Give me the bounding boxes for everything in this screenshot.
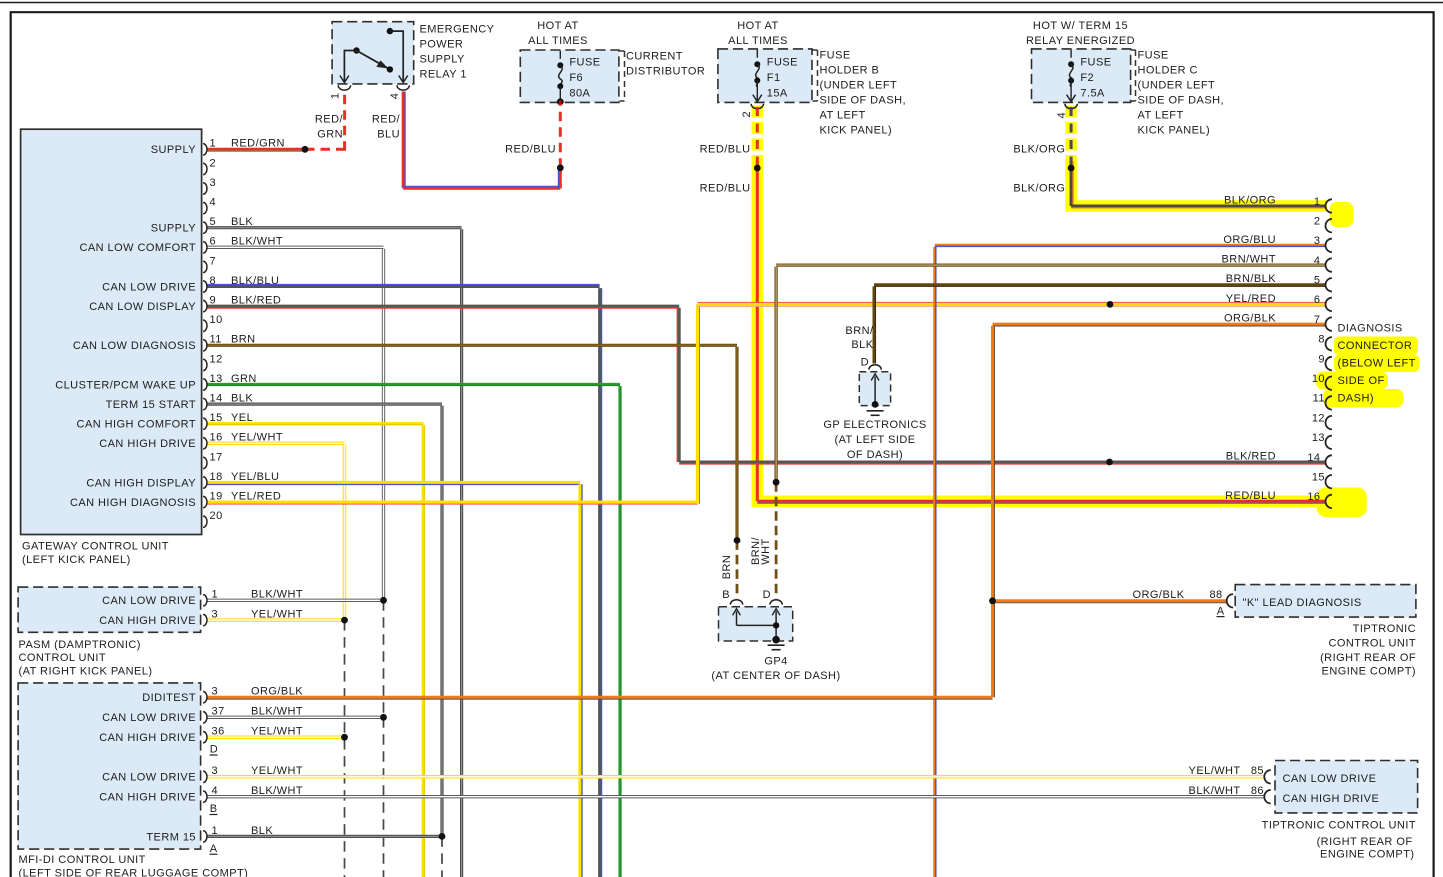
- svg-text:SUPPLY: SUPPLY: [420, 53, 466, 65]
- svg-text:MFI-DI CONTROL UNIT: MFI-DI CONTROL UNIT: [19, 854, 146, 866]
- svg-text:CAN LOW DRIVE: CAN LOW DRIVE: [102, 281, 196, 293]
- svg-text:BLK/ORG: BLK/ORG: [1013, 143, 1065, 155]
- svg-text:CAN LOW DRIVE: CAN LOW DRIVE: [102, 595, 196, 607]
- fuse F1 pin 2 terminal: [751, 104, 763, 109]
- diagnosis connector pin 4 terminal: [1326, 258, 1332, 271]
- svg-text:BRN/BLK: BRN/BLK: [1226, 273, 1276, 285]
- svg-text:9: 9: [1318, 353, 1325, 365]
- dashed bus continuation BLK/WHT: [383, 600, 385, 717]
- svg-text:4: 4: [1056, 112, 1068, 119]
- svg-text:F2: F2: [1080, 72, 1094, 84]
- svg-text:(RIGHT REAR OF: (RIGHT REAR OF: [1317, 836, 1413, 848]
- svg-text:15: 15: [1312, 472, 1325, 484]
- svg-text:YEL/WHT: YEL/WHT: [1189, 765, 1241, 777]
- PASM pin terminals: [203, 595, 207, 606]
- diagnosis connector pin 16 terminal: [1326, 495, 1332, 508]
- GP4 arrows and tie: [736, 611, 738, 625]
- svg-text:4: 4: [389, 93, 401, 100]
- svg-text:SIDE OF DASH,: SIDE OF DASH,: [820, 95, 907, 107]
- diagnosis connector pin 12 terminal: [1326, 416, 1332, 429]
- svg-text:OF DASH): OF DASH): [847, 449, 903, 461]
- svg-text:SIDE OF DASH,: SIDE OF DASH,: [1138, 95, 1225, 107]
- splice on BLK/RED: [1106, 459, 1113, 466]
- fuse F6 element: [559, 51, 561, 59]
- svg-text:BLK/WHT: BLK/WHT: [231, 236, 283, 248]
- junction splice on RED/BLU F6: [557, 164, 564, 171]
- diagnosis connector pin 13 terminal: [1326, 436, 1332, 449]
- svg-text:1: 1: [210, 138, 217, 150]
- fuse F2 holder C box: [1032, 49, 1131, 103]
- gateway pin 19 terminal: [203, 496, 207, 507]
- wire BLK gateway pin 5 supply: [208, 226, 462, 229]
- svg-text:88: 88: [1209, 589, 1222, 601]
- svg-text:D: D: [210, 744, 218, 756]
- svg-text:CAN HIGH COMFORT: CAN HIGH COMFORT: [77, 419, 196, 431]
- svg-text:1: 1: [330, 93, 342, 100]
- svg-text:BLK/RED: BLK/RED: [231, 295, 281, 307]
- svg-text:RED/: RED/: [315, 114, 344, 126]
- gateway pin 17 terminal: [203, 457, 207, 468]
- svg-text:2: 2: [210, 157, 217, 169]
- svg-text:37: 37: [212, 706, 225, 718]
- svg-text:CAN LOW DRIVE: CAN LOW DRIVE: [1283, 773, 1377, 785]
- splice on ORG/BLK: [989, 597, 996, 604]
- splice PASM pin3: [341, 617, 348, 624]
- svg-text:14: 14: [210, 393, 223, 405]
- svg-text:4: 4: [1314, 255, 1321, 267]
- svg-text:ORG/BLK: ORG/BLK: [1133, 589, 1185, 601]
- svg-text:GRN: GRN: [317, 129, 343, 141]
- GP4 ground box: [719, 607, 793, 641]
- fuse F6 current distributor box: [520, 50, 619, 102]
- svg-text:BLK/WHT: BLK/WHT: [251, 589, 303, 601]
- wire ORG/BLK diagnosis pin 7 to MFI diditest: [993, 323, 1326, 326]
- svg-text:BRN/: BRN/: [845, 325, 874, 337]
- svg-text:FUSE: FUSE: [1138, 50, 1169, 62]
- wire GRN gateway pin 13 cluster/pcm wake up: [208, 383, 621, 386]
- svg-text:CAN HIGH DRIVE: CAN HIGH DRIVE: [1283, 793, 1380, 805]
- svg-text:17: 17: [210, 451, 223, 463]
- svg-text:POWER: POWER: [420, 38, 464, 50]
- svg-text:BLK/WHT: BLK/WHT: [251, 785, 303, 797]
- svg-text:F6: F6: [569, 72, 583, 84]
- gateway pin 6 terminal: [203, 242, 207, 253]
- junction splice on RED/BLU F1: [754, 165, 761, 172]
- wire BLK gateway pin 14 term 15 start: [208, 403, 443, 406]
- svg-text:HOT AT: HOT AT: [737, 20, 778, 32]
- wire BLK MFI pin 1 term 15: [208, 835, 443, 838]
- bracket fuse holder B: [813, 49, 818, 51]
- svg-text:RED/BLU: RED/BLU: [1225, 490, 1276, 502]
- svg-text:2: 2: [741, 111, 753, 118]
- svg-text:YEL/RED: YEL/RED: [1226, 293, 1276, 305]
- svg-text:BLK: BLK: [231, 216, 253, 228]
- gateway pin 13 terminal: [203, 379, 207, 390]
- wire ORG/BLU diagnosis pin 3: [935, 244, 1326, 247]
- wire YEL/RED gateway pin 19 to diagnosis pin 6: [208, 501, 698, 504]
- svg-text:9: 9: [210, 295, 217, 307]
- svg-text:ENGINE COMPT): ENGINE COMPT): [1320, 849, 1414, 861]
- svg-text:11: 11: [1313, 393, 1325, 405]
- svg-text:WHT: WHT: [760, 538, 772, 564]
- svg-text:CAN HIGH DIAGNOSIS: CAN HIGH DIAGNOSIS: [70, 497, 196, 509]
- svg-text:19: 19: [210, 491, 223, 503]
- svg-text:5: 5: [210, 216, 217, 228]
- diagnosis connector pin 11 terminal: [1326, 396, 1332, 409]
- svg-text:20: 20: [210, 510, 223, 522]
- svg-text:YEL/WHT: YEL/WHT: [251, 609, 303, 621]
- svg-text:4: 4: [210, 197, 217, 209]
- svg-text:GP4: GP4: [764, 656, 787, 668]
- svg-text:SUPPLY: SUPPLY: [151, 223, 197, 235]
- svg-text:15: 15: [210, 412, 223, 424]
- diagnosis connector pin 7 terminal: [1326, 317, 1332, 330]
- svg-text:CURRENT: CURRENT: [626, 51, 683, 63]
- svg-text:RED/: RED/: [372, 114, 401, 126]
- svg-text:36: 36: [212, 726, 225, 738]
- svg-text:5: 5: [1314, 275, 1321, 287]
- svg-text:TIPTRONIC: TIPTRONIC: [1353, 623, 1416, 635]
- svg-text:7: 7: [210, 255, 217, 267]
- gateway pin 7 terminal: [203, 261, 207, 272]
- splice term15: [439, 833, 446, 840]
- svg-text:(AT CENTER OF DASH): (AT CENTER OF DASH): [711, 670, 840, 682]
- svg-text:3: 3: [212, 686, 219, 698]
- svg-text:13: 13: [210, 373, 223, 385]
- svg-text:(UNDER LEFT: (UNDER LEFT: [1138, 80, 1216, 92]
- MFI-DI control unit box: [18, 683, 201, 849]
- svg-text:1: 1: [212, 825, 219, 837]
- svg-text:CAN HIGH DRIVE: CAN HIGH DRIVE: [99, 438, 196, 450]
- dashed continuation BLK term15: [441, 836, 443, 877]
- gateway pin 9 terminal: [203, 300, 207, 311]
- GP electronics ground box: [859, 372, 890, 406]
- svg-text:FUSE: FUSE: [767, 56, 798, 68]
- svg-text:RELAY ENERGIZED: RELAY ENERGIZED: [1026, 35, 1135, 47]
- svg-text:CAN HIGH DISPLAY: CAN HIGH DISPLAY: [86, 477, 196, 489]
- svg-text:HOLDER C: HOLDER C: [1138, 65, 1198, 77]
- svg-text:80A: 80A: [569, 87, 590, 99]
- fuse F2 pin 4 terminal: [1065, 104, 1077, 109]
- wire BLK/RED gateway pin 9 to diagnosis pin 14: [208, 305, 680, 308]
- svg-text:D: D: [861, 357, 869, 369]
- gateway pin 15 terminal: [203, 418, 207, 429]
- splice on YEL/RED: [1107, 301, 1114, 308]
- gateway pin 10 terminal: [203, 320, 207, 331]
- svg-text:(LEFT KICK PANEL): (LEFT KICK PANEL): [22, 554, 131, 566]
- svg-text:16: 16: [210, 432, 223, 444]
- MFI pin 1 terminal TERM 15: [203, 831, 207, 842]
- gateway pin 4 terminal: [203, 202, 207, 213]
- svg-text:CAN HIGH DRIVE: CAN HIGH DRIVE: [99, 792, 196, 804]
- svg-text:1: 1: [1314, 196, 1321, 208]
- svg-text:(RIGHT REAR OF: (RIGHT REAR OF: [1320, 652, 1416, 664]
- svg-text:3: 3: [212, 765, 219, 777]
- svg-text:RED/BLU: RED/BLU: [700, 143, 751, 155]
- svg-text:EMERGENCY: EMERGENCY: [420, 23, 495, 35]
- diagnosis connector pin 1 terminal: [1326, 199, 1332, 212]
- gateway pin 3 terminal: [203, 183, 207, 194]
- svg-text:15A: 15A: [767, 87, 788, 99]
- svg-text:BLK/BLU: BLK/BLU: [231, 275, 279, 287]
- svg-text:RED/BLU: RED/BLU: [700, 182, 751, 194]
- MFI pin 3 terminal DIDITEST: [203, 692, 207, 703]
- svg-text:12: 12: [1312, 412, 1325, 424]
- junction splice on RED/GRN: [302, 146, 309, 153]
- emergency power supply relay 1 box: [332, 22, 414, 84]
- splice MFI pin36: [341, 734, 348, 741]
- fuse F1 holder B box: [718, 49, 812, 103]
- svg-text:(AT LEFT SIDE: (AT LEFT SIDE: [834, 434, 915, 446]
- svg-text:(LEFT SIDE OF REAR LUGGAGE COM: (LEFT SIDE OF REAR LUGGAGE COMPT): [19, 867, 249, 877]
- svg-text:BLK/ORG: BLK/ORG: [1224, 194, 1276, 206]
- wire BLK/ORG fuse F2 to diagnosis pin 1 (highlighted): [1070, 107, 1073, 163]
- svg-text:SUPPLY: SUPPLY: [151, 144, 197, 156]
- gateway pin 18 terminal: [203, 477, 207, 488]
- diagnosis connector pin 8 terminal: [1326, 337, 1332, 350]
- svg-text:KICK PANEL): KICK PANEL): [820, 125, 893, 137]
- svg-text:BLK/RED: BLK/RED: [1226, 450, 1276, 462]
- svg-text:ALL TIMES: ALL TIMES: [728, 35, 788, 47]
- highlight blob diagnosis pin 16: [1317, 488, 1367, 518]
- relay pin 1 terminal: [338, 85, 350, 90]
- MFI pin 3 terminal CAN LOW DRIVE: [203, 771, 207, 782]
- highlight blob diagnosis pins 1-2: [1330, 202, 1354, 227]
- svg-text:ORG/BLU: ORG/BLU: [1223, 234, 1276, 246]
- highlight band BLK/ORG fuse F2 to diagnosis pin 1: [1065, 106, 1077, 164]
- svg-text:FUSE: FUSE: [1080, 56, 1111, 68]
- svg-text:6: 6: [1314, 294, 1321, 306]
- wire BLK/WHT MFI pin 37: [208, 716, 384, 719]
- wire BRN gateway pin 11 CAN low diagnosis to GP4: [208, 344, 738, 347]
- svg-text:CAN LOW DRIVE: CAN LOW DRIVE: [102, 712, 196, 724]
- top page rule: [0, 2, 1443, 4]
- svg-text:7: 7: [1314, 314, 1321, 326]
- svg-text:18: 18: [210, 471, 223, 483]
- svg-text:BLK: BLK: [851, 339, 873, 351]
- bracket current distributor: [620, 50, 625, 52]
- svg-text:(AT RIGHT KICK PANEL): (AT RIGHT KICK PANEL): [19, 666, 153, 678]
- K lead pin 88 terminal: [1227, 594, 1233, 607]
- splice PASM pin1: [380, 597, 387, 604]
- svg-text:14: 14: [1307, 452, 1320, 464]
- svg-text:12: 12: [210, 353, 223, 365]
- MFI pin 4 terminal CAN HIGH DRIVE: [203, 791, 207, 802]
- svg-text:CONTROL UNIT: CONTROL UNIT: [1329, 637, 1417, 649]
- tiptronic control unit box: [1275, 761, 1418, 813]
- wire BRN/WHT diagnosis pin 4 to GP4 pin D: [776, 263, 1325, 266]
- svg-text:RED/GRN: RED/GRN: [231, 138, 285, 150]
- svg-text:DIDITEST: DIDITEST: [142, 692, 196, 704]
- svg-text:4: 4: [212, 785, 219, 797]
- svg-text:F1: F1: [767, 72, 781, 84]
- wire BLK/WHT gateway pin 6 CAN low comfort: [208, 246, 384, 249]
- svg-text:TIPTRONIC CONTROL UNIT: TIPTRONIC CONTROL UNIT: [1262, 820, 1416, 832]
- svg-text:3: 3: [212, 609, 219, 621]
- svg-text:A: A: [1217, 605, 1225, 617]
- GP electronics earth symbol: [867, 410, 884, 412]
- svg-text:BLK: BLK: [251, 825, 273, 837]
- svg-text:FUSE: FUSE: [569, 56, 600, 68]
- svg-text:CAN LOW DRIVE: CAN LOW DRIVE: [102, 772, 196, 784]
- svg-text:10: 10: [1312, 373, 1325, 385]
- wire BLK/WHT MFI pin 4 to tiptronic pin 86: [208, 795, 1265, 798]
- svg-text:BLK/WHT: BLK/WHT: [251, 706, 303, 718]
- svg-text:KICK PANEL): KICK PANEL): [1138, 125, 1211, 137]
- junction splice on BLK/ORG F2: [1068, 165, 1075, 172]
- svg-text:RED/BLU: RED/BLU: [505, 143, 556, 155]
- gateway pin 8 terminal: [203, 281, 207, 292]
- K lead diagnosis box: [1235, 585, 1416, 618]
- svg-text:YEL: YEL: [231, 412, 253, 424]
- svg-text:GP ELECTRONICS: GP ELECTRONICS: [823, 419, 926, 431]
- gateway pin 16 terminal: [203, 438, 207, 449]
- svg-text:SIDE OF: SIDE OF: [1338, 375, 1385, 387]
- svg-text:CAN LOW DISPLAY: CAN LOW DISPLAY: [89, 301, 196, 313]
- svg-text:85: 85: [1251, 765, 1264, 777]
- relay contact symbol: [340, 28, 408, 83]
- svg-text:DISTRIBUTOR: DISTRIBUTOR: [626, 66, 705, 78]
- svg-text:BRN: BRN: [721, 555, 733, 580]
- diagnosis connector pin 15 terminal: [1326, 475, 1332, 488]
- wire ORG/BLK K lead branch: [993, 599, 1227, 602]
- dashed bus continuation YEL/WHT: [344, 620, 346, 877]
- svg-text:86: 86: [1251, 785, 1264, 797]
- gateway pin 14 terminal: [203, 398, 207, 409]
- PASM control unit box: [18, 587, 201, 632]
- wire YEL/WHT MFI pin 36: [208, 735, 345, 739]
- svg-text:YEL/WHT: YEL/WHT: [231, 432, 283, 444]
- svg-text:CAN LOW DIAGNOSIS: CAN LOW DIAGNOSIS: [73, 340, 196, 352]
- svg-text:(UNDER LEFT: (UNDER LEFT: [820, 80, 898, 92]
- svg-text:CAN HIGH DRIVE: CAN HIGH DRIVE: [99, 615, 196, 627]
- svg-text:YEL/RED: YEL/RED: [231, 491, 281, 503]
- svg-text:TERM 15 START: TERM 15 START: [106, 399, 196, 411]
- svg-text:GRN: GRN: [231, 373, 257, 385]
- gateway pin 20 terminal: [203, 516, 207, 527]
- wire YEL gateway pin 15 CAN high comfort: [208, 422, 424, 425]
- svg-text:FUSE: FUSE: [820, 50, 851, 62]
- wire BLK/WHT PASM pin 1: [208, 599, 384, 602]
- svg-text:AT LEFT: AT LEFT: [1138, 110, 1184, 122]
- svg-text:CAN LOW COMFORT: CAN LOW COMFORT: [79, 242, 196, 254]
- svg-text:6: 6: [210, 236, 217, 248]
- GP electronics arrow: [874, 377, 876, 405]
- wire RED/GRN gateway pin 1 to relay pin 1: [208, 148, 306, 151]
- svg-text:BLK: BLK: [231, 393, 253, 405]
- GP4 pin D terminal: [770, 600, 782, 605]
- tiptronic pin 85/86 terminals: [1264, 770, 1270, 783]
- svg-text:16: 16: [1307, 491, 1320, 503]
- gateway pin 2 terminal: [203, 163, 207, 174]
- wire BLK/BLU gateway pin 8 CAN low drive: [208, 285, 600, 288]
- diagnosis connector pin 14 terminal: [1326, 455, 1332, 468]
- splice on BRN: [734, 537, 741, 544]
- svg-text:HOT AT: HOT AT: [537, 20, 578, 32]
- wire RED/BLU fuse F1 to diagnosis pin 16 (highlighted): [756, 107, 759, 163]
- svg-text:10: 10: [210, 314, 223, 326]
- wire YEL/WHT PASM pin 3: [208, 618, 345, 622]
- wire BRN/BLK diagnosis pin 5 to GP electronics: [874, 283, 1326, 286]
- svg-text:7.5A: 7.5A: [1080, 87, 1105, 99]
- svg-text:BLK/ORG: BLK/ORG: [1013, 182, 1065, 194]
- MFI pin 37 terminal CAN LOW DRIVE: [203, 712, 207, 723]
- diagnosis connector pin 10 terminal: [1326, 377, 1332, 390]
- wire RED/BLU relay pin 4 to fuse F6: [402, 92, 405, 189]
- gateway pin 1 terminal: [203, 144, 207, 155]
- wire YEL/BLU gateway pin 18 CAN high display: [208, 481, 581, 484]
- svg-text:A: A: [210, 843, 218, 855]
- gateway pin 12 terminal: [203, 359, 207, 370]
- svg-text:D: D: [763, 589, 771, 601]
- svg-text:BRN: BRN: [231, 334, 256, 346]
- GP4 pin B terminal: [730, 600, 742, 605]
- svg-text:2: 2: [1314, 216, 1321, 228]
- svg-text:GATEWAY CONTROL UNIT: GATEWAY CONTROL UNIT: [22, 540, 169, 552]
- splice on BRN/WHT: [773, 479, 780, 486]
- svg-text:ORG/BLK: ORG/BLK: [1224, 313, 1276, 325]
- GP4 earth symbol: [768, 644, 785, 646]
- svg-text:CAN HIGH DRIVE: CAN HIGH DRIVE: [99, 732, 196, 744]
- relay pin 4 terminal: [397, 85, 409, 90]
- svg-text:DIAGNOSIS: DIAGNOSIS: [1338, 323, 1403, 335]
- diagnosis connector pin 2 terminal: [1326, 219, 1332, 232]
- svg-text:(BELOW LEFT: (BELOW LEFT: [1338, 358, 1416, 370]
- svg-text:PASM (DAMPTRONIC): PASM (DAMPTRONIC): [19, 639, 141, 651]
- wire YEL/WHT MFI pin 3 to tiptronic pin 85: [208, 775, 1265, 779]
- svg-text:CONNECTOR: CONNECTOR: [1338, 340, 1413, 352]
- svg-text:B: B: [722, 589, 730, 601]
- svg-text:13: 13: [1312, 432, 1325, 444]
- svg-text:HOT W/ TERM 15: HOT W/ TERM 15: [1033, 20, 1128, 32]
- svg-text:ENGINE COMPT): ENGINE COMPT): [1322, 665, 1416, 677]
- highlight band RED/BLU fuse F1 to diagnosis pin 16: [752, 106, 764, 164]
- svg-text:RELAY 1: RELAY 1: [420, 68, 467, 80]
- svg-text:"K" LEAD DIAGNOSIS: "K" LEAD DIAGNOSIS: [1243, 597, 1362, 609]
- GP electronics pin D terminal: [869, 365, 881, 370]
- svg-text:BRN/WHT: BRN/WHT: [1222, 254, 1276, 266]
- svg-text:8: 8: [1318, 334, 1325, 346]
- svg-text:YEL/WHT: YEL/WHT: [251, 765, 303, 777]
- svg-text:YEL/WHT: YEL/WHT: [251, 726, 303, 738]
- svg-text:YEL/BLU: YEL/BLU: [231, 471, 279, 483]
- diagnosis connector pin 9 terminal: [1326, 357, 1332, 370]
- svg-text:8: 8: [210, 275, 217, 287]
- svg-text:BLU: BLU: [377, 129, 400, 141]
- svg-text:CONTROL UNIT: CONTROL UNIT: [19, 652, 107, 664]
- svg-text:1: 1: [212, 589, 219, 601]
- wire YEL/WHT gateway pin 16 CAN high drive: [208, 442, 345, 446]
- svg-text:HOLDER B: HOLDER B: [820, 65, 880, 77]
- svg-text:ALL TIMES: ALL TIMES: [528, 35, 588, 47]
- fuse F1 element: [756, 50, 758, 58]
- svg-text:AT LEFT: AT LEFT: [820, 110, 866, 122]
- svg-text:11: 11: [210, 334, 222, 346]
- svg-text:3: 3: [210, 177, 217, 189]
- bracket fuse holder C: [1131, 49, 1136, 51]
- MFI pin 36 terminal CAN HIGH DRIVE: [203, 732, 207, 743]
- fuse F2 element: [1070, 50, 1072, 58]
- diagnosis connector pin 3 terminal: [1326, 239, 1332, 252]
- highlight diagnosis connector caption lines: [1334, 337, 1418, 356]
- gateway pin 5 terminal: [203, 222, 207, 233]
- svg-text:3: 3: [1314, 235, 1321, 247]
- svg-text:TERM 15: TERM 15: [146, 831, 196, 843]
- svg-text:BLK/WHT: BLK/WHT: [1189, 785, 1241, 797]
- svg-text:ORG/BLK: ORG/BLK: [251, 686, 303, 698]
- diagnosis connector pin 6 terminal: [1326, 298, 1332, 311]
- svg-text:B: B: [210, 803, 218, 815]
